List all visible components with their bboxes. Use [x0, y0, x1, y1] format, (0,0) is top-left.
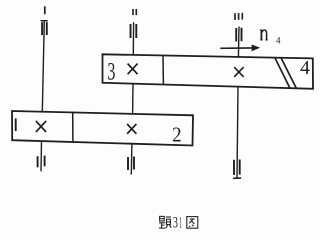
speed label n (drawn)	[260, 30, 262, 40]
gear 1 label	[15, 118, 17, 131]
gearbox 3-4 housing	[103, 54, 314, 89]
gearbox 1-2 divider	[72, 112, 74, 142]
svg-text:3: 3	[173, 215, 178, 232]
svg-text:4: 4	[276, 36, 281, 46]
bearing of shaft III (top)	[236, 28, 241, 42]
bearing of shaft I (bottom)	[38, 156, 45, 168]
gear 2 mount mark x on shaft II	[127, 124, 136, 134]
wire shaft II upper segment	[132, 22, 134, 55]
wire shaft II middle segment	[132, 84, 134, 114]
bearing of shaft III (bottom)	[234, 160, 240, 175]
shaft I top end cap	[41, 20, 48, 22]
gear 1 mount mark x on shaft I	[36, 121, 46, 132]
svg-text:2: 2	[172, 123, 182, 147]
bearing of shaft I (top)	[42, 22, 47, 35]
gear 4 mount mark x on shaft III	[234, 67, 243, 77]
caption character tu (图)	[187, 217, 198, 229]
bearing of shaft II (top)	[131, 24, 137, 38]
svg-text:4: 4	[300, 57, 310, 79]
caption character ti (题)	[159, 216, 171, 228]
shaft III bottom end cap	[233, 177, 241, 179]
wire shaft II lower segment	[130, 144, 133, 175]
shaft II label II	[133, 9, 136, 15]
hatch diagonal 1 on gearbox 3-4	[275, 58, 290, 88]
gear 3 mount mark x on shaft II	[128, 64, 138, 75]
wire shaft I lower segment	[40, 141, 43, 171]
shaft III label III	[235, 13, 242, 20]
wire shaft III upper segment	[237, 27, 240, 58]
gearbox 3-4 divider	[162, 56, 164, 85]
wire shaft I upper segment	[42, 21, 44, 112]
arrow n4 direction	[220, 47, 253, 49]
hatch diagonal 2 on gearbox 3-4	[281, 58, 296, 89]
gearbox 1-2 housing	[12, 111, 193, 146]
svg-text:1: 1	[179, 215, 182, 232]
svg-text:3: 3	[107, 59, 115, 86]
wire shaft III lower segment	[237, 87, 238, 178]
bearing of shaft II (bottom)	[128, 157, 134, 171]
shaft I label I	[44, 6, 46, 14]
